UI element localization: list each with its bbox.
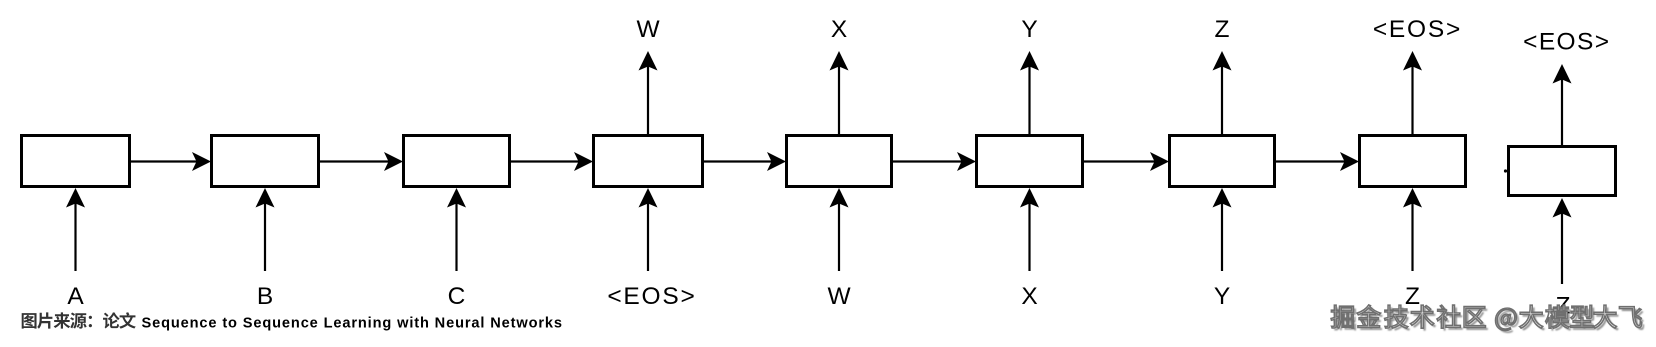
output label EOS above cell9 [1523,29,1610,56]
wire arrow cell4 to cell5 [703,152,786,171]
input arrow into cell5 [830,188,849,271]
svg-text:W: W [636,16,660,43]
input arrow into cell6 [1020,188,1039,271]
output arrow from cell6 [1020,51,1039,134]
input label B below cell2 [257,283,273,310]
input arrow into cell1 [66,188,85,271]
RNN cell8 box [1360,136,1466,187]
input arrow into cell4 [639,188,658,271]
svg-text:<EOS>: <EOS> [607,283,696,310]
output arrow from cell7 [1213,51,1232,134]
RNN cell4 box [594,136,703,187]
caption source text [22,312,563,331]
svg-text:Y: Y [1214,283,1230,310]
svg-text:Z: Z [1405,283,1420,310]
output arrow from cell5 [830,51,849,134]
output label X above cell5 [831,16,847,43]
input arrow into cell7 [1213,188,1232,271]
wire arrow cell2 to cell3 [319,152,403,171]
RNN cell7 box [1170,136,1275,187]
output arrow from cell9 [1553,64,1572,145]
wire arrow cell5 to cell6 [892,152,976,171]
svg-text:A: A [67,283,84,310]
svg-text:<EOS>: <EOS> [1373,16,1462,43]
svg-text:W: W [827,283,851,310]
input arrow into cell3 [447,188,466,271]
svg-text:Sequence to Sequence Learning: Sequence to Sequence Learning with Neura… [142,315,563,331]
RNN cell3 box [404,136,510,187]
input label EOS below cell4 [607,283,696,310]
svg-text:Z: Z [1215,16,1230,43]
svg-text:B: B [257,283,273,310]
input label Z below cell8 [1405,283,1420,310]
junction dot on cell9 left edge [1504,169,1507,172]
output label Z above cell7 [1215,16,1230,43]
input arrow into cell9 [1553,198,1572,284]
wire arrow cell1 to cell2 [130,152,211,171]
wire arrow cell7 to cell8 [1275,152,1359,171]
input arrow into cell2 [256,188,275,271]
input label Z below cell9 [1556,293,1571,320]
RNN cell6 box [977,136,1083,187]
output arrow from cell4 [639,51,658,134]
RNN cell2 box [212,136,319,187]
input label X below cell6 [1021,283,1037,310]
input label Y below cell7 [1214,283,1230,310]
svg-text:X: X [831,16,847,43]
RNN cell5 box [787,136,892,187]
RNN cell1 box [22,136,130,187]
output label Y above cell6 [1021,16,1037,43]
RNN cell9 box [1509,147,1616,196]
output label EOS above cell8 [1373,16,1462,43]
wire arrow cell6 to cell7 [1083,152,1169,171]
input arrow into cell8 [1403,188,1422,271]
input label W below cell5 [827,283,851,310]
svg-text:X: X [1021,283,1037,310]
wire arrow cell3 to cell4 [510,152,593,171]
svg-text:Y: Y [1021,16,1037,43]
svg-text:<EOS>: <EOS> [1523,29,1610,56]
input label A below cell1 [67,283,84,310]
input label C below cell3 [448,283,466,310]
output label W above cell4 [636,16,660,43]
output arrow from cell8 [1403,51,1422,134]
svg-text:C: C [448,283,466,310]
watermark juejin community [1331,305,1644,333]
